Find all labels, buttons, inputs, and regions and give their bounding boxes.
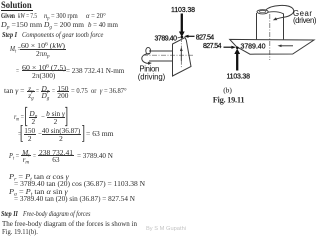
fraction bar bbox=[41, 90, 51, 93]
svg-text:3789.40: 3789.40 bbox=[155, 35, 178, 42]
svg-text:Fig. 19.11: Fig. 19.11 bbox=[213, 96, 245, 105]
svg-text:1103.38: 1103.38 bbox=[171, 7, 195, 14]
fraction bar bbox=[47, 116, 65, 119]
fraction bar bbox=[21, 154, 31, 157]
force arrow 1103.38 on gear (thick, up) bbox=[236, 53, 238, 71]
fraction bar bbox=[38, 154, 75, 157]
gear centerline (vertical dash-dot) bbox=[269, 14, 271, 60]
fraction bar bbox=[42, 133, 81, 136]
pinion shaft bbox=[149, 51, 173, 61]
fraction bar bbox=[24, 133, 36, 136]
svg-text:(b): (b) bbox=[223, 85, 232, 94]
svg-text:827.54: 827.54 bbox=[203, 43, 222, 50]
arrow 827.54 (gear, pointing right) bbox=[224, 46, 233, 48]
arrow 827.54 (pinion, pointing left) bbox=[187, 35, 195, 37]
pinion centerline bbox=[143, 54, 195, 56]
fraction bar bbox=[29, 116, 37, 119]
gear shaft top rim (small ellipse, double) bbox=[257, 10, 268, 14]
rotation arrow (gear, loop) bbox=[266, 5, 294, 19]
gear shaft top rim arc (right part) bbox=[268, 12, 283, 14]
bracket left eq4 bbox=[26, 107, 28, 125]
pinion bevel gear bbox=[173, 38, 192, 77]
pinion rotation arrow bbox=[142, 54, 150, 64]
plate internal arrow (left) bbox=[281, 45, 294, 47]
junction dot (gear tip) bbox=[236, 47, 239, 50]
pinion gear axis (vertical dashed) bbox=[180, 38, 182, 68]
gear shaft cylinder bbox=[257, 13, 284, 39]
bracket left eq5 bbox=[21, 125, 23, 141]
fraction bar bbox=[27, 90, 35, 93]
Solution underline bbox=[1, 10, 33, 12]
svg-text:3789.40: 3789.40 bbox=[241, 43, 266, 50]
gear plate (bevel gear, driven) bbox=[230, 39, 314, 54]
force arrow 1103.38 on pinion (thick, down) bbox=[181, 14, 183, 33]
svg-text:(driven): (driven) bbox=[293, 16, 317, 25]
fraction bar bbox=[20, 48, 66, 51]
fraction bar bbox=[57, 90, 70, 93]
bracket right eq5 bbox=[82, 125, 84, 141]
junction dot (pinion apex) bbox=[181, 36, 184, 39]
pinion shaft end cap bbox=[146, 47, 151, 54]
pinion internal force arrow (up) bbox=[180, 50, 182, 61]
svg-text:1103.38: 1103.38 bbox=[227, 73, 251, 80]
svg-text:827.54: 827.54 bbox=[196, 35, 214, 42]
bracket right eq4 bbox=[65, 107, 67, 125]
fraction bar bbox=[22, 69, 66, 72]
svg-text:(driving): (driving) bbox=[138, 72, 166, 81]
